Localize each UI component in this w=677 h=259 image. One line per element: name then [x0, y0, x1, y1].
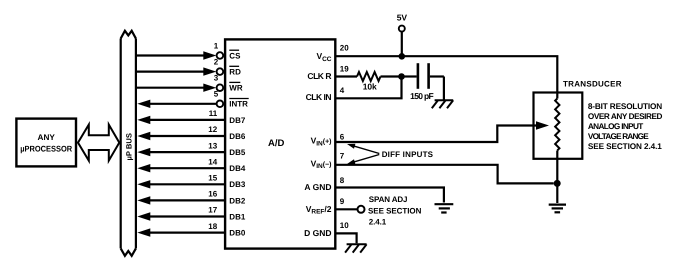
- svg-text:A/D: A/D: [268, 138, 285, 149]
- wire DB4 pin 14: [137, 157, 246, 173]
- wire DB3 pin 15: [137, 174, 246, 190]
- svg-text:11: 11: [209, 109, 218, 118]
- chassis ground (D GND): [345, 244, 367, 252]
- svg-text:VCC: VCC: [316, 51, 331, 63]
- svg-text:µPROCESSOR: µPROCESSOR: [20, 145, 72, 154]
- svg-text:A GND: A GND: [304, 182, 331, 192]
- wire DB7 pin 11: [137, 109, 246, 125]
- pin 1 bubble: [217, 52, 224, 59]
- svg-text:DB3: DB3: [229, 180, 246, 189]
- svg-text:15: 15: [208, 174, 217, 183]
- svg-text:5: 5: [214, 90, 219, 99]
- svg-text:DIFF INPUTS: DIFF INPUTS: [382, 150, 434, 159]
- svg-text:1: 1: [214, 41, 219, 50]
- svg-text:20: 20: [340, 43, 349, 52]
- capacitor 150 pF: [402, 63, 444, 101]
- svg-text:WR: WR: [229, 84, 243, 93]
- pin 2 bubble: [217, 68, 224, 75]
- svg-text:ANALOG INPUT: ANALOG INPUT: [588, 122, 643, 131]
- wire DB0 pin 18: [137, 222, 246, 238]
- svg-text:µP BUS: µP BUS: [125, 133, 134, 160]
- pin 3 bubble: [217, 84, 224, 91]
- svg-text:CLK IN: CLK IN: [306, 92, 332, 102]
- wire VIN(-) pin 7: [335, 152, 553, 184]
- svg-text:5V: 5V: [397, 13, 408, 23]
- svg-text:INTR: INTR: [229, 100, 248, 109]
- svg-text:10k: 10k: [363, 81, 377, 91]
- svg-text:18: 18: [208, 222, 217, 231]
- svg-text:14: 14: [208, 157, 217, 166]
- svg-text:2: 2: [214, 57, 219, 66]
- span adjust terminal pin 9: [335, 197, 364, 213]
- wire INTR pin 5: [137, 90, 248, 109]
- svg-text:12: 12: [208, 125, 217, 134]
- microprocessor box: [16, 119, 76, 167]
- wire DB2 pin 16: [137, 190, 246, 206]
- wire WR pin 3: [137, 74, 243, 93]
- bus break bottom: [121, 248, 136, 255]
- svg-text:TRANSDUCER: TRANSDUCER: [563, 80, 622, 89]
- svg-text:DB4: DB4: [229, 164, 246, 173]
- wire DB1 pin 17: [137, 206, 246, 222]
- resistor 10k: [357, 72, 402, 91]
- svg-text:VREF/2: VREF/2: [306, 204, 332, 216]
- svg-text:DB7: DB7: [229, 116, 246, 125]
- span adj annotation: [368, 195, 422, 226]
- svg-text:DB1: DB1: [229, 212, 246, 221]
- A/D converter: [225, 39, 335, 248]
- svg-text:VOLTAGE RANGE: VOLTAGE RANGE: [588, 132, 649, 141]
- svg-text:D GND: D GND: [304, 228, 331, 238]
- 5V supply terminal: [397, 13, 408, 60]
- wire DB5 pin 13: [137, 141, 246, 157]
- svg-text:ANY: ANY: [38, 133, 56, 142]
- svg-text:DB6: DB6: [229, 132, 246, 141]
- pin 5 bubble: [217, 101, 224, 108]
- junction 5V/VCC: [399, 53, 406, 60]
- ground (transducer): [549, 205, 566, 213]
- svg-text:150 pF: 150 pF: [410, 91, 434, 101]
- svg-text:13: 13: [208, 141, 217, 150]
- svg-text:2.4.1: 2.4.1: [369, 217, 387, 226]
- svg-text:9: 9: [340, 197, 345, 206]
- svg-text:16: 16: [208, 190, 217, 199]
- svg-text:OVER ANY DESIRED: OVER ANY DESIRED: [588, 112, 663, 121]
- ground (A GND): [435, 204, 454, 212]
- junction pot/VIN-: [554, 180, 561, 187]
- svg-text:DB0: DB0: [229, 229, 246, 238]
- wire CLK IN pin 4: [335, 77, 401, 99]
- chassis ground (capacitor): [432, 77, 453, 109]
- transducer box: [534, 80, 622, 159]
- svg-text:VIN(−): VIN(−): [311, 158, 332, 170]
- svg-text:DB5: DB5: [229, 148, 246, 157]
- potentiometer (transducer): [555, 99, 559, 204]
- wire VIN(+) pin 6: [335, 121, 549, 142]
- svg-text:3: 3: [214, 74, 219, 83]
- svg-text:19: 19: [340, 65, 349, 74]
- svg-text:SPAN ADJ: SPAN ADJ: [369, 195, 408, 204]
- bus interface double arrow: [78, 125, 119, 161]
- wire VCC pin 20: [335, 43, 557, 98]
- svg-text:RD: RD: [229, 68, 241, 77]
- svg-text:SEE SECTION 2.4.1: SEE SECTION 2.4.1: [588, 142, 662, 151]
- svg-text:8-BIT RESOLUTION: 8-BIT RESOLUTION: [588, 102, 662, 111]
- diff inputs callout: [347, 144, 434, 165]
- svg-text:10: 10: [340, 221, 349, 230]
- svg-text:SEE SECTION: SEE SECTION: [368, 207, 422, 216]
- wire DB6 pin 12: [137, 125, 246, 141]
- wire CS pin 1: [137, 41, 241, 60]
- junction resistor/capacitor/CLK IN: [398, 73, 405, 80]
- annotation 8-bit resolution: [588, 102, 663, 151]
- svg-text:4: 4: [340, 86, 345, 95]
- svg-text:6: 6: [340, 132, 345, 141]
- svg-text:7: 7: [340, 152, 345, 161]
- svg-text:DB2: DB2: [229, 196, 246, 205]
- svg-text:8: 8: [340, 176, 345, 185]
- wire CLK R pin 19: [335, 65, 357, 77]
- microprocessor bus: [121, 31, 136, 256]
- wire RD pin 2: [137, 57, 241, 76]
- svg-text:17: 17: [208, 206, 217, 215]
- bus break top: [121, 31, 136, 39]
- wire A GND pin 8: [335, 176, 444, 203]
- wire D GND pin 10: [335, 221, 356, 243]
- svg-text:CS: CS: [229, 51, 241, 60]
- svg-text:CLK R: CLK R: [307, 71, 331, 81]
- svg-text:VIN(+): VIN(+): [311, 136, 332, 148]
